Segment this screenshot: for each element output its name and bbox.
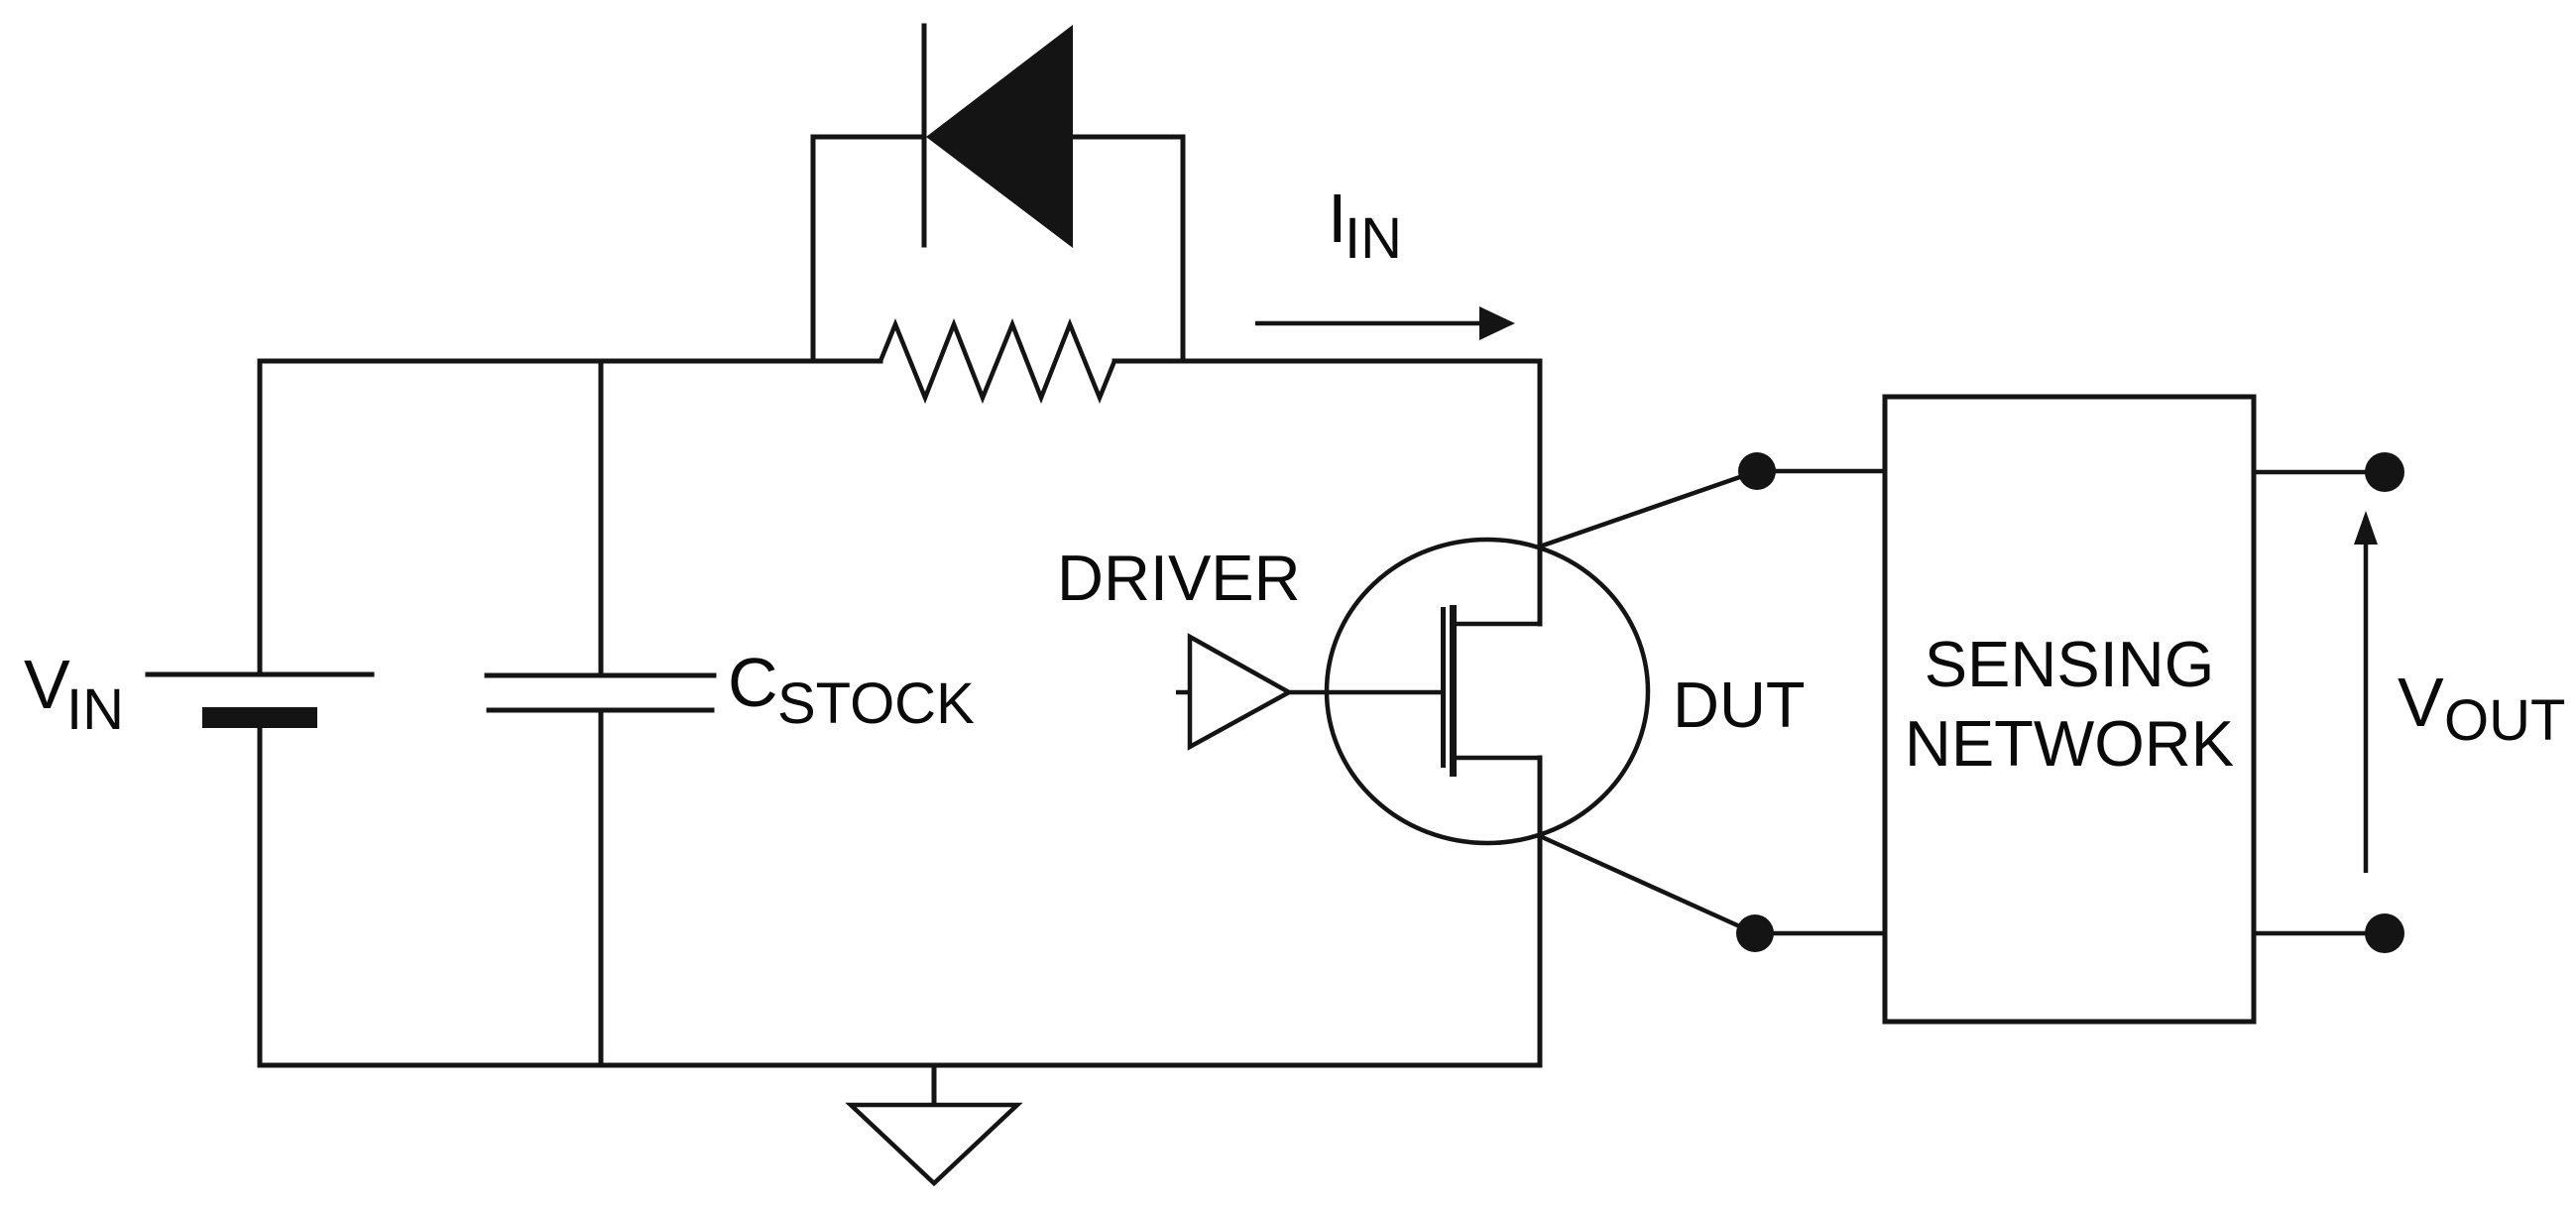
svg-text:NETWORK: NETWORK xyxy=(1905,707,2234,780)
svg-text:STOCK: STOCK xyxy=(777,671,975,736)
svg-text:DUT: DUT xyxy=(1673,669,1806,741)
svg-text:C: C xyxy=(728,644,778,721)
svg-text:SENSING: SENSING xyxy=(1925,628,2215,700)
svg-text:IN: IN xyxy=(66,677,124,742)
svg-text:IN: IN xyxy=(1345,206,1402,271)
svg-text:DRIVER: DRIVER xyxy=(1057,542,1301,614)
svg-text:V: V xyxy=(2398,664,2444,741)
svg-text:V: V xyxy=(24,646,70,723)
svg-text:OUT: OUT xyxy=(2444,688,2565,753)
